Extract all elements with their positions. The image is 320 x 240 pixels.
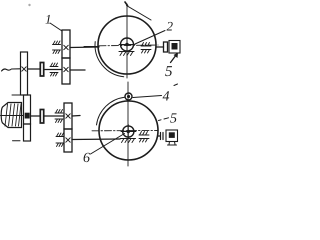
wire: small shelf line left of column <box>12 94 21 96</box>
coupling on shaft II <box>40 63 43 77</box>
wire: shaft I from B1 to drum 2 <box>70 46 99 49</box>
label 1 leader <box>50 23 62 31</box>
node: hub cross on shaft I in B1 <box>64 45 68 49</box>
svg-text:1: 1 <box>45 12 52 27</box>
label 3 clipped tick and tangent line at top <box>125 2 128 6</box>
node: centerline vertical of drum 5 <box>127 82 129 166</box>
gear D2 (on shaft IV) <box>64 129 72 152</box>
wire: shaft II left break squiggle <box>2 69 21 71</box>
bearing on shaft III (hatched) <box>55 110 63 123</box>
hub circle of drum 5 <box>123 126 134 137</box>
gear B2 (lower rect of middle column, on shaft II) <box>62 58 70 84</box>
label 2 leader <box>135 31 165 45</box>
roller 4 on top of drum 5 <box>125 93 132 100</box>
node: hub cross on shaft II in gear Z1 <box>22 67 26 71</box>
wire: shaft II from coupling to bearing/pulley <box>44 69 62 71</box>
node: hub cross on shaft III in D1 <box>66 114 70 118</box>
svg-text:6: 6 <box>83 151 90 166</box>
drum 2 (top big circle) <box>98 16 156 74</box>
bearing on shaft II (hatched, left of pulley column) <box>50 63 58 76</box>
arrow to box 3 <box>171 55 177 63</box>
wire: shaft III stub right of D1 <box>72 115 80 118</box>
node: centerline horizontal of drum 2 <box>84 46 99 48</box>
bearing on shaft I (hatched, left of B1) <box>53 41 61 54</box>
gear D1 (on shaft III, middle lower column) <box>64 103 72 129</box>
wire: shaft IV long line to right <box>72 138 120 141</box>
speck <box>28 4 30 6</box>
svg-text:2: 2 <box>167 19 174 34</box>
svg-text:5: 5 <box>165 64 173 80</box>
wire: shaft II stub right of B2 <box>70 69 85 71</box>
wire: shaft III from coupling to bearing/column <box>44 115 64 117</box>
band arc on lower-left of drum 2 <box>95 42 124 77</box>
node: hub cross on shaft IV in D2 <box>66 138 70 142</box>
pulley B1 (upper rect of middle column, on shaft I) <box>62 30 70 58</box>
wire: shaft III from gear Z2 to coupling <box>31 115 41 117</box>
gear Z3 (left column bottom small rect) <box>24 124 31 141</box>
motor M (hatched capsule) <box>1 103 21 128</box>
coupling right of drum 2 <box>164 42 168 52</box>
node: centerline horizontal of drum 5 <box>92 130 158 132</box>
coupling on shaft III <box>40 110 43 124</box>
wire: motor centerline <box>1 115 24 117</box>
bearing on shaft IV (hatched) <box>56 133 64 147</box>
label 4 leader <box>133 96 162 98</box>
coupling right of drum 5 (two bars) <box>161 133 164 140</box>
band arc upper-left of drum 5 to roller <box>97 97 125 125</box>
node: hub cross on shaft II in B2 <box>64 67 68 71</box>
brake box 3 (top right instrument) <box>169 41 180 54</box>
drum 5 (bottom big circle) <box>99 101 158 160</box>
svg-text:4: 4 <box>163 90 170 105</box>
gear Z1 (large gear, left column upper rect) <box>21 52 28 95</box>
label 6 leader <box>91 134 125 155</box>
wire: small shelf line bottom left <box>13 140 21 142</box>
label 5 leader dash <box>159 118 169 121</box>
gear Z2 (left column lower rect on motor shaft) <box>24 95 31 124</box>
wire: shaft II from gear Z1 to coupling <box>28 68 41 70</box>
node: centerline vertical of drum 2 <box>126 4 128 78</box>
hub circle of drum 2 <box>121 38 134 51</box>
node: hub cross on shaft III in gear Z2 <box>25 113 30 119</box>
support under drum 5 hub (hatched pedestal) <box>121 139 136 143</box>
feet of dynamo box <box>168 142 177 146</box>
wire: shaft I right of drum 2 <box>156 46 164 48</box>
bearing right of drum 2 hub (hatched) <box>141 43 151 54</box>
wire: shaft right of drum 5 <box>158 135 160 137</box>
support under drum 2 hub (hatched pedestal) <box>119 52 134 56</box>
dynamo box (bottom right instrument) <box>166 130 178 142</box>
bearing right of drum 5 hub (hatched) <box>139 132 149 143</box>
svg-text:5: 5 <box>170 112 177 127</box>
